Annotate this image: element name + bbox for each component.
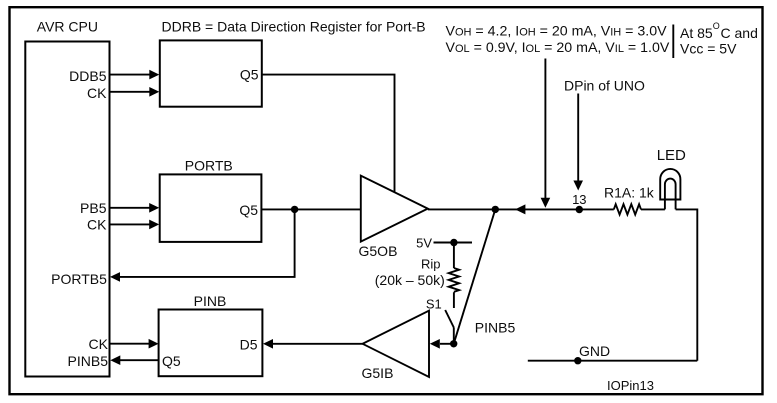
svg-text:PINB5: PINB5 [68,353,109,369]
LED [657,147,686,209]
pin PB5 [80,200,159,216]
svg-text:CK: CK [87,85,107,101]
pin PINB5 / Q5 out wire [68,353,159,369]
register DDRB [160,40,262,106]
svg-text:5V: 5V [416,236,432,251]
wire PORTB Q5 to G5OB input [261,208,360,210]
wire LED to GND rail [676,209,698,360]
svg-text:VOL = 0.9V, IOL = 20 mA, VIL =: VOL = 0.9V, IOL = 20 mA, VIL = 1.0V [446,40,670,56]
resistor R1A [604,185,655,215]
wire PORTB5 feedback [110,209,295,281]
svg-text:Vcc = 5V: Vcc = 5V [680,41,737,57]
wire resistor to LED [641,208,665,210]
svg-text:PINB5: PINB5 [475,320,516,336]
svg-text:Rip: Rip [421,257,441,272]
resistor Rip [375,243,459,309]
pin CK of DDRB [87,85,159,101]
arrow from specs to pin wire [541,59,551,208]
arrow DPin of UNO to pin 13 [573,94,583,191]
svg-text:IOPin13: IOPin13 [607,378,654,393]
register PINB [159,293,263,376]
node PINB5 [450,340,457,347]
buffer G5OB [359,176,428,259]
svg-text:GND: GND [579,343,610,359]
svg-text:Q5: Q5 [240,67,259,83]
pin DDB5 [69,68,159,84]
svg-text:DDB5: DDB5 [69,68,107,84]
svg-text:AVR CPU: AVR CPU [37,19,98,35]
wire pin node to PINB5 node (slanted) [454,209,496,343]
svg-text:LED: LED [657,147,686,164]
svg-text:D5: D5 [240,337,258,353]
svg-text:PINB: PINB [194,293,227,309]
ground GND [528,343,698,364]
svg-text:DDRB = Data Direction Register: DDRB = Data Direction Register for Port-… [162,19,426,35]
node Q5 junction [291,206,298,213]
divider bar [672,25,674,59]
wire G5IB output to PINB D5 [263,339,363,349]
svg-text:(20k – 50k): (20k – 50k) [375,272,445,288]
switch S1 [426,296,454,344]
svg-text:CK: CK [87,216,107,232]
svg-text:VOH = 4.2, IOH = 20 mA, VIH =: VOH = 4.2, IOH = 20 mA, VIH = 3.0V [446,23,668,39]
AVR CPU block [25,19,109,377]
node output junction [492,206,499,213]
svg-text:PORTB: PORTB [185,157,233,173]
svg-text:13: 13 [572,192,586,207]
buffer G5IB [362,311,430,381]
node pin 13 [576,206,583,213]
pin CK of PINB [89,336,159,352]
arrow into circuit on pin wire [515,204,525,214]
pin CK of PORTB [87,216,159,232]
svg-text:Q5: Q5 [162,353,181,369]
power 5V rail [416,236,472,251]
svg-text:S1: S1 [426,296,442,311]
wire PINB5 node into G5IB [430,339,454,349]
svg-text:DPin of UNO: DPin of UNO [564,78,645,94]
wire G5OB output to pin node [428,208,614,210]
svg-text:G5IB: G5IB [362,365,394,381]
svg-text:PB5: PB5 [80,200,107,216]
svg-text:PORTB5: PORTB5 [51,271,107,287]
svg-text:Q5: Q5 [239,202,258,218]
svg-text:G5OB: G5OB [359,243,398,259]
register PORTB [160,157,262,242]
svg-text:CK: CK [89,336,109,352]
wire DDRB Q5 to G5OB enable [262,75,395,192]
svg-text:R1A: 1k: R1A: 1k [604,185,655,201]
